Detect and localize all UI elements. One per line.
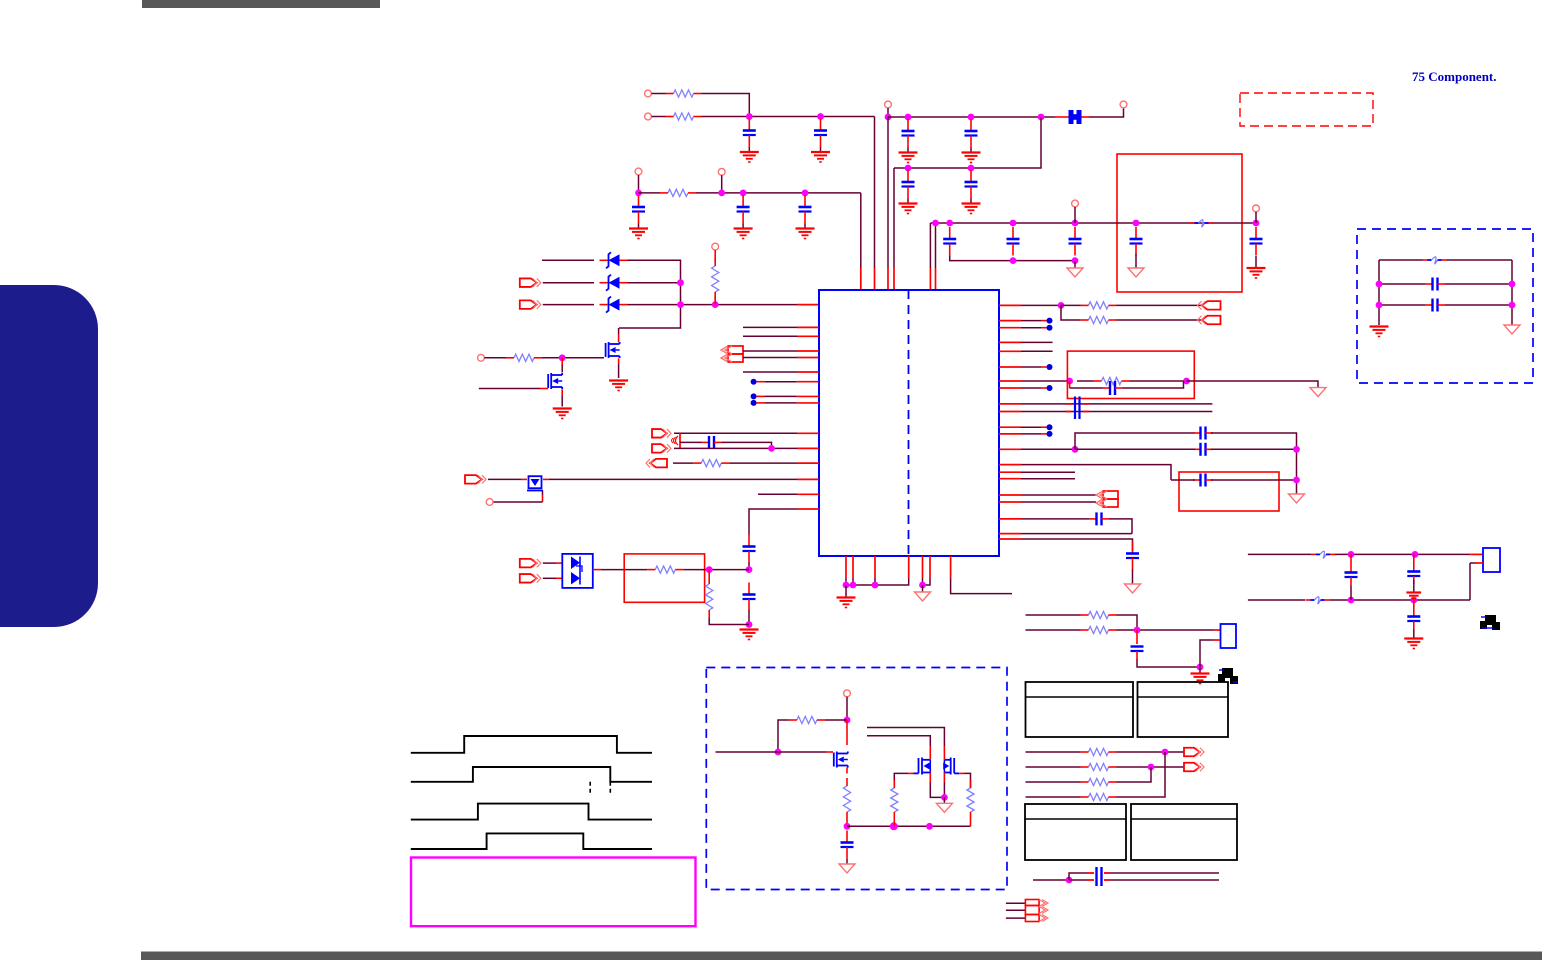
wire (999, 471, 1075, 473)
junction at (929.5,826.3) (926, 823, 933, 830)
wire (543, 304, 594, 306)
wire (1248, 599, 1305, 601)
capacitor C13 (1130, 227, 1143, 256)
capacitor C1 (743, 119, 756, 148)
wire (479, 388, 548, 390)
wire (1511, 260, 1513, 325)
resistor R20 (1081, 778, 1117, 785)
resistor R18 (1081, 748, 1117, 755)
wire (999, 533, 1132, 535)
top gray title bar (142, 0, 380, 8)
junction at (749,624.5) (746, 621, 753, 628)
capacitor C11 (1007, 227, 1020, 256)
wire (1379, 259, 1512, 261)
wire (714, 250, 716, 305)
ground (1247, 256, 1266, 278)
capacitor C4 (965, 119, 978, 148)
connector A14 (1184, 748, 1204, 757)
capacitor C19 (1103, 381, 1123, 395)
transistor Q2 (548, 373, 562, 389)
ground (1504, 325, 1520, 334)
wire (593, 569, 630, 571)
wire (652, 116, 875, 118)
wire (618, 358, 620, 378)
junction at (1413.8,600) (1410, 597, 1417, 604)
component icon (1480, 615, 1500, 630)
wire (1026, 767, 1152, 782)
junction at (1013,260.6) (1010, 257, 1017, 264)
node M6 blue dot (1047, 431, 1053, 437)
wire (1061, 305, 1081, 320)
junction at (1069.6,381) (1066, 378, 1073, 385)
resistor R12 (967, 780, 974, 820)
wire (847, 825, 971, 827)
dashed annotation box (1357, 229, 1533, 383)
left navy side tab (0, 285, 98, 627)
junction at (1351,554.4) (1348, 551, 1355, 558)
connector A11 (1198, 301, 1221, 310)
connector A9 (520, 559, 541, 568)
junction at (778,752) (775, 749, 782, 756)
solid red box (624, 554, 704, 602)
pin P12 (844, 690, 851, 697)
junction at (944.4,797.4) (941, 794, 948, 801)
wire (923, 578, 931, 585)
junction at (1296.5,480) (1293, 477, 1300, 484)
wire (999, 403, 1212, 405)
wire (743, 371, 819, 373)
capacitor C23 (1193, 474, 1213, 487)
wire (673, 462, 819, 464)
junction at (1075,449.3) (1072, 446, 1079, 453)
node N2 blue dot wire (751, 393, 819, 399)
capacitor C26 (1131, 647, 1144, 652)
wire (743, 357, 819, 359)
table T1 (1026, 682, 1134, 737)
wire (846, 768, 848, 774)
capacitor C16 (743, 535, 756, 564)
wire (846, 578, 909, 585)
junction at (1379,305) (1376, 302, 1383, 309)
ground (899, 199, 918, 214)
wire (874, 117, 876, 290)
wire (930, 773, 944, 798)
capacitor C14 (1250, 227, 1263, 256)
node M5 blue dot (1047, 424, 1053, 430)
wire (1006, 917, 1026, 919)
junction at (1075,260.6) (1072, 257, 1079, 264)
wire (484, 357, 604, 359)
ground (740, 147, 759, 162)
wire (619, 260, 681, 328)
wire (1089, 108, 1124, 117)
wire (943, 773, 945, 798)
node N1 blue dot wire (751, 379, 819, 385)
ground (1125, 584, 1141, 593)
resistor R14 (1081, 316, 1117, 323)
capacitor C6 (965, 170, 978, 199)
wire (999, 501, 1096, 503)
wire (674, 432, 819, 434)
title text 75 Component (1412, 69, 1497, 84)
capacitor C21 (1193, 427, 1213, 440)
connector J1 (1221, 624, 1237, 648)
wire (1330, 599, 1471, 601)
node M2 blue dot (1047, 325, 1053, 331)
wire (1379, 283, 1512, 285)
junction at (846,585) (843, 582, 850, 589)
wire (999, 380, 1070, 382)
wire (1006, 902, 1026, 904)
wire (999, 426, 1047, 428)
wire (867, 736, 930, 752)
wire (1335, 553, 1483, 555)
capacitor C27 (1088, 867, 1110, 886)
junction at (1165,752) (1162, 749, 1169, 756)
wire (999, 448, 1075, 450)
wire (1069, 381, 1071, 388)
junction at (771.5,448.4) (768, 445, 775, 452)
wire (950, 256, 1075, 261)
transistor Q4 (834, 752, 848, 768)
wire (639, 192, 861, 194)
wire (846, 820, 848, 826)
junction at (922.5,585) (919, 582, 926, 589)
wire (908, 556, 910, 578)
junction at (1415,554.4) (1412, 551, 1419, 558)
capacitor C29 (1407, 554, 1420, 584)
wire (893, 820, 895, 826)
ground (839, 859, 855, 873)
connector A10 (520, 574, 541, 583)
capacitor C10 (943, 227, 956, 256)
capacitor C12 (1069, 227, 1082, 256)
connector A12 (1198, 316, 1221, 325)
resistor R2 (666, 113, 702, 120)
wire (1070, 381, 1184, 388)
junction at (709.2,569.6) (706, 566, 713, 573)
wire (888, 116, 1055, 118)
ground (936, 797, 952, 812)
fuse F2 (1311, 551, 1335, 558)
wire (1075, 448, 1297, 450)
junction at (847,826.3) (844, 823, 851, 830)
transistor Q5 (914, 752, 931, 775)
ground (962, 148, 981, 163)
resistor R10 (843, 778, 850, 820)
ground (1191, 668, 1210, 684)
zener diode D2 (600, 275, 628, 291)
pin P3 (885, 101, 892, 108)
wire (846, 720, 848, 745)
wire (999, 341, 1053, 343)
wire (743, 350, 819, 352)
wire (543, 282, 594, 284)
connector A15 (1184, 763, 1204, 772)
waveform W3 (411, 804, 652, 820)
svg-text:75 Component.: 75 Component. (1412, 69, 1497, 84)
junction at (680.5,304.6) (677, 301, 684, 308)
wire (630, 569, 749, 571)
wire (1132, 570, 1134, 585)
wire (1026, 615, 1138, 630)
junction at (1137,630) (1134, 627, 1141, 634)
ground (899, 148, 918, 163)
wire (852, 556, 854, 578)
junction at (875,585) (872, 582, 879, 589)
wire (1211, 433, 1297, 489)
table T3 (1025, 804, 1126, 860)
TVS diode D4 (562, 554, 593, 588)
wire (1006, 909, 1026, 911)
resistor R7 (647, 566, 683, 573)
wire (1061, 304, 1201, 306)
connector A2 (520, 300, 541, 309)
wire (680, 442, 772, 448)
wire (999, 433, 1047, 435)
ground (1370, 327, 1389, 337)
junction at (1200,667) (1197, 664, 1204, 671)
transistor Q6 (943, 752, 959, 775)
ground (1128, 254, 1144, 277)
magenta note box (411, 858, 696, 927)
wire (1137, 651, 1200, 667)
wire (721, 175, 723, 193)
wire (893, 168, 895, 289)
fuse F3 (1306, 597, 1330, 604)
ground (1404, 639, 1423, 649)
red dashed annotation box (1240, 93, 1373, 126)
solid red box (1067, 351, 1194, 398)
wire (999, 465, 1171, 480)
wire (930, 222, 1256, 224)
pin P1 (645, 90, 652, 97)
zener diode D1 (600, 252, 628, 268)
wire (999, 478, 1075, 480)
junction at (1296.5,449.3) (1293, 446, 1300, 453)
wire (1136, 630, 1138, 644)
transistor Q1 (606, 342, 620, 358)
wire (1026, 629, 1221, 631)
resistor R8 (706, 576, 713, 618)
wire (874, 556, 876, 578)
capacitor C30 (1407, 600, 1420, 638)
solid red box (1117, 154, 1242, 292)
wire (1470, 563, 1483, 600)
wire (674, 447, 819, 449)
resistor R4 (712, 258, 719, 300)
pin P2 (645, 113, 652, 120)
ground (811, 147, 830, 162)
resistor R13 (1081, 302, 1117, 309)
junction at (1186.5,381) (1183, 378, 1190, 385)
pin P6 (718, 168, 725, 175)
wire (999, 494, 1096, 496)
junction at (721.7,192.9) (718, 190, 725, 197)
junction at (935.5,223) (932, 220, 939, 227)
wire (618, 328, 620, 342)
table T2 (1138, 682, 1229, 737)
wire (743, 335, 819, 337)
junction at (820.5,116.5) (817, 113, 824, 120)
junction at (749.3,116.5) (746, 113, 753, 120)
wire (999, 387, 1047, 389)
ferrite bead FB1 (1055, 110, 1089, 124)
wire (543, 577, 562, 579)
ground (629, 224, 648, 239)
junction at (680.5,282.7) (677, 279, 684, 286)
resistor R1 (666, 90, 702, 97)
wire (999, 304, 1061, 306)
wire (950, 556, 952, 578)
junction at (971,168) (968, 165, 975, 172)
transistor Q3 (527, 476, 543, 490)
capacitor C18 (841, 831, 854, 860)
junction at (1512,284) (1509, 281, 1516, 288)
capacitor C8 (737, 195, 750, 224)
pin P11 (486, 499, 493, 506)
wire (887, 117, 889, 289)
connector A16 triple (1025, 900, 1048, 922)
junction at (805,192.9) (802, 190, 809, 197)
wire (846, 578, 923, 585)
junction at (749,569.6) (746, 566, 753, 573)
junction at (908,168) (905, 165, 912, 172)
wire (1074, 207, 1076, 223)
wire (894, 773, 913, 788)
wire (1255, 212, 1257, 223)
node M3 blue dot (1047, 364, 1053, 370)
capacitor C15 (702, 436, 722, 449)
wire (1033, 879, 1069, 881)
junction at (1151,767) (1148, 764, 1155, 771)
wire (959, 773, 970, 788)
wire (1026, 751, 1185, 753)
capacitor C25 (1126, 542, 1139, 571)
pin P5 (635, 168, 642, 175)
wire (628, 282, 681, 284)
pin P8 (1253, 205, 1260, 212)
waveform W1 (411, 736, 652, 753)
component icon (1218, 668, 1238, 684)
capacitor C7 (632, 195, 645, 224)
wire (970, 820, 972, 826)
junction at (971,117) (968, 114, 975, 121)
capacitor C24 (1089, 512, 1109, 525)
resistor R16 (1081, 611, 1117, 618)
capacitor C28 (1345, 554, 1358, 600)
ground (1289, 489, 1305, 503)
junction at (908,117) (905, 114, 912, 121)
junction at (1512,305) (1509, 302, 1516, 309)
resistor R15 (1094, 377, 1130, 384)
pin P10 (478, 354, 485, 361)
capacitor C2 (814, 119, 827, 148)
junction at (893.8,826.3) (890, 822, 898, 830)
connector A8 (465, 475, 486, 484)
wire (488, 478, 527, 480)
node M4 blue dot (1047, 385, 1053, 391)
connector A13 double (1096, 491, 1118, 507)
capacitor C31 (1425, 278, 1445, 291)
waveform W4 (411, 833, 652, 849)
table T4 (1131, 804, 1237, 860)
wire (999, 366, 1047, 368)
ground (734, 224, 753, 239)
junction at (949.7,223) (946, 220, 953, 227)
wire (628, 304, 819, 306)
junction at (888,117) (885, 114, 892, 121)
resistor R3 (660, 189, 696, 196)
resistor R9 (789, 716, 825, 723)
wire (1026, 752, 1166, 797)
wire (749, 509, 819, 535)
connector A7 (646, 459, 667, 468)
ground (1067, 261, 1083, 277)
junction at (562.2,357.8) (559, 354, 566, 361)
junction at (743.1,192.9) (740, 190, 747, 197)
resistor R6 (693, 460, 729, 467)
wire (561, 358, 563, 373)
wire (999, 350, 1053, 352)
wire (1248, 553, 1311, 555)
wire (999, 320, 1047, 322)
wire (1069, 873, 1219, 880)
ground (740, 630, 759, 640)
capacitor C22 (1193, 443, 1213, 456)
wire (929, 556, 931, 578)
wire (1378, 260, 1380, 325)
wire (1069, 879, 1219, 881)
wire (999, 539, 1133, 551)
wire (493, 491, 543, 503)
wire (1026, 766, 1185, 768)
fuse F4 (1423, 257, 1447, 264)
connector A5 stack mark (672, 433, 681, 448)
wire (845, 556, 847, 578)
wire (561, 389, 563, 406)
dashed sub-circuit box (706, 668, 1007, 890)
wire (951, 578, 1012, 594)
connector A6 (652, 444, 671, 453)
wire (867, 728, 944, 753)
wire (638, 175, 640, 193)
junction at (1061,305.4) (1058, 302, 1065, 309)
ground (553, 409, 572, 419)
ground (609, 381, 628, 391)
wire (1117, 319, 1202, 321)
resistor R17 (1081, 626, 1117, 633)
capacitor C32 (1425, 299, 1445, 312)
wire (543, 562, 562, 564)
junction at (1379,284) (1376, 281, 1383, 288)
wire (716, 751, 834, 753)
wire (748, 563, 750, 570)
ground (962, 199, 981, 214)
wire (758, 493, 819, 495)
junction at (847,720) (844, 717, 851, 724)
capacitor C20 (1066, 397, 1089, 420)
ground (915, 585, 931, 601)
wire (1171, 479, 1297, 481)
wire (860, 193, 862, 289)
wire (1187, 381, 1319, 388)
wire (1075, 433, 1195, 449)
IC U1 (819, 290, 999, 556)
zener diode D3 (600, 297, 628, 313)
node N3 blue dot wire (751, 400, 819, 406)
wire (1077, 380, 1187, 382)
